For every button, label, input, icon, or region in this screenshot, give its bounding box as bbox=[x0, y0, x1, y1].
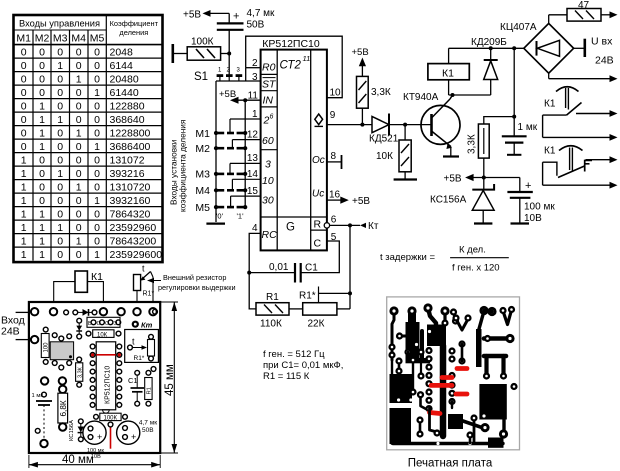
svg-text:0: 0 bbox=[94, 60, 100, 72]
svg-text:4,7 мк: 4,7 мк bbox=[247, 8, 276, 19]
PCB board outline (component side) bbox=[29, 302, 160, 453]
misc pads on board bbox=[35, 309, 157, 433]
node A junction dot bbox=[227, 52, 231, 56]
wire pin 5 to C1 bbox=[301, 241, 340, 273]
node M1 input with jumper switch bbox=[195, 128, 247, 140]
svg-text:1: 1 bbox=[21, 181, 27, 193]
svg-text:10: 10 bbox=[330, 88, 342, 99]
wire M4 to IC pin bbox=[232, 179, 260, 190]
svg-text:+5В: +5В bbox=[183, 10, 201, 21]
svg-text:М1: М1 bbox=[195, 128, 210, 140]
switch S1 bbox=[194, 68, 242, 84]
svg-text:1310720: 1310720 bbox=[110, 181, 151, 193]
svg-text:16: 16 bbox=[329, 190, 341, 201]
svg-text:'1': '1' bbox=[237, 212, 245, 221]
svg-text:122880: 122880 bbox=[110, 100, 145, 112]
svg-text:'0': '0' bbox=[216, 212, 224, 221]
svg-text:0: 0 bbox=[57, 235, 63, 247]
copper trace group 5 (center V) bbox=[452, 314, 471, 330]
svg-text:G: G bbox=[286, 222, 295, 234]
svg-text:М4: М4 bbox=[195, 185, 210, 197]
svg-text:+5В: +5В bbox=[444, 173, 462, 184]
svg-text:23592960: 23592960 bbox=[110, 222, 157, 234]
svg-text:10: 10 bbox=[262, 175, 274, 187]
relay coil K1 bbox=[428, 48, 469, 95]
svg-text:КР512ПС10: КР512ПС10 bbox=[262, 38, 320, 50]
svg-text:Коэффициент: Коэффициент bbox=[110, 19, 159, 28]
svg-text:КТ940А: КТ940А bbox=[403, 92, 439, 103]
svg-text:0: 0 bbox=[21, 141, 27, 153]
svg-text:0: 0 bbox=[57, 154, 63, 166]
svg-text:R: R bbox=[314, 219, 322, 231]
pin 8 Oc open terminal bbox=[327, 155, 342, 169]
svg-text:U вх: U вх bbox=[591, 36, 613, 48]
svg-text:1: 1 bbox=[39, 127, 45, 139]
svg-text:М4: М4 bbox=[71, 33, 86, 45]
svg-text:М1: М1 bbox=[16, 33, 31, 45]
svg-text:1: 1 bbox=[21, 195, 27, 207]
svg-text:24В: 24В bbox=[595, 55, 614, 67]
small diode on board (vertical) bbox=[76, 318, 82, 339]
svg-text:1: 1 bbox=[39, 249, 45, 261]
node M3 input with jumper switch bbox=[195, 169, 247, 181]
svg-text:8: 8 bbox=[331, 151, 337, 162]
svg-text:0: 0 bbox=[76, 195, 82, 207]
copper block left A bbox=[390, 374, 413, 403]
wire emitter to ground bbox=[450, 147, 452, 156]
copper trace group 3 (pad to black block) bbox=[423, 303, 446, 346]
svg-text:0: 0 bbox=[39, 168, 45, 180]
formula t_delay bbox=[380, 245, 509, 274]
svg-text:Кт: Кт bbox=[141, 321, 153, 330]
IC socket (gray) on board bbox=[50, 333, 73, 370]
svg-text:КС156А: КС156А bbox=[430, 195, 467, 206]
resistor R 3.3K (pull-up) bbox=[357, 76, 391, 126]
zener KS156A on board bbox=[69, 419, 84, 442]
op IC U1 KR512PS10 bbox=[261, 38, 327, 250]
svg-text:6: 6 bbox=[270, 114, 274, 121]
resistor R1 on board bbox=[145, 370, 153, 406]
copper trace group 12 (right bracket) bbox=[483, 356, 507, 380]
electrolytic cap 4.7uF on board bbox=[117, 420, 158, 445]
svg-text:24В: 24В bbox=[1, 326, 20, 338]
dimension 45 mm bbox=[160, 302, 178, 453]
svg-text:100: 100 bbox=[44, 342, 50, 353]
svg-text:R1: R1 bbox=[266, 292, 279, 303]
svg-text:30: 30 bbox=[262, 195, 274, 207]
svg-text:1: 1 bbox=[252, 109, 258, 120]
svg-text:1: 1 bbox=[21, 208, 27, 220]
svg-text:t задержки =: t задержки = bbox=[380, 252, 435, 263]
timer box with t / R1* on board bbox=[125, 330, 159, 363]
capacitor 1uF on board bbox=[32, 392, 53, 447]
copper trace group 2 (thick bar) bbox=[396, 306, 430, 363]
svg-text:М2: М2 bbox=[35, 33, 50, 45]
wire diode to base node bbox=[389, 123, 432, 127]
svg-text:4: 4 bbox=[252, 223, 258, 234]
svg-text:R1 = 115 К: R1 = 115 К bbox=[263, 371, 310, 382]
wire pin 9 to diode bbox=[327, 124, 372, 126]
node +5V top-left bbox=[183, 10, 229, 21]
zener diode KS156A bbox=[430, 178, 494, 223]
wire pin 6 to Kt node bbox=[330, 221, 379, 232]
svg-text:40 мм: 40 мм bbox=[62, 454, 94, 466]
svg-text:100К: 100К bbox=[104, 416, 118, 422]
svg-text:131072: 131072 bbox=[110, 154, 145, 166]
capacitor 4.7uF 50V bbox=[217, 8, 275, 31]
wire pin 2 R0 bbox=[246, 67, 261, 69]
svg-text:1: 1 bbox=[94, 249, 100, 261]
svg-text:9: 9 bbox=[330, 110, 336, 121]
svg-text:+5В: +5В bbox=[219, 89, 236, 100]
wire M2 to IC pin bbox=[232, 140, 260, 149]
svg-text:2: 2 bbox=[252, 58, 258, 69]
svg-text:7864320: 7864320 bbox=[110, 208, 151, 220]
svg-text:1: 1 bbox=[39, 141, 45, 153]
svg-text:Кт: Кт bbox=[368, 221, 379, 232]
svg-text:1: 1 bbox=[94, 195, 100, 207]
svg-text:0: 0 bbox=[94, 73, 100, 85]
resistor 6.8K on board bbox=[58, 386, 68, 431]
svg-text:13: 13 bbox=[247, 153, 259, 164]
coefficient table bbox=[14, 15, 163, 262]
svg-text:0: 0 bbox=[21, 100, 27, 112]
copper block right (big) bbox=[479, 383, 517, 439]
svg-text:0: 0 bbox=[57, 127, 63, 139]
svg-text:О: О bbox=[97, 321, 102, 327]
rail 1 (+5V rail) bbox=[244, 100, 246, 208]
ground bar at emitter bbox=[443, 155, 459, 157]
svg-text:45 мм: 45 мм bbox=[164, 364, 176, 396]
svg-text:при С1= 0,01 мкФ,: при С1= 0,01 мкФ, bbox=[263, 360, 343, 371]
pin 6 inverter circle bbox=[324, 223, 329, 228]
svg-text:0: 0 bbox=[21, 114, 27, 126]
svg-text:78643200: 78643200 bbox=[110, 235, 157, 247]
node +5V at pin 11 bbox=[219, 89, 261, 104]
svg-text:0: 0 bbox=[21, 87, 27, 99]
svg-text:60: 60 bbox=[262, 135, 274, 147]
svg-text:Uс: Uс bbox=[312, 189, 324, 200]
svg-text:0: 0 bbox=[21, 73, 27, 85]
svg-text:К1: К1 bbox=[544, 99, 556, 110]
resistor 10K bbox=[376, 125, 411, 179]
IC KR512PS10 on board bbox=[90, 342, 122, 413]
svg-text:1: 1 bbox=[57, 222, 63, 234]
svg-text:R0: R0 bbox=[262, 62, 276, 74]
svg-text:1228800: 1228800 bbox=[110, 127, 151, 139]
copper trace group 11 (DIP right pads) bbox=[448, 340, 465, 408]
svg-text:20480: 20480 bbox=[110, 73, 139, 85]
relay contact K1 (upper) bbox=[543, 87, 618, 141]
svg-text:1: 1 bbox=[39, 235, 45, 247]
wire collector node bbox=[449, 93, 491, 99]
pin 16 Uc to +5V bbox=[327, 196, 371, 207]
svg-text:S1: S1 bbox=[194, 71, 208, 83]
svg-text:Входы управления: Входы управления bbox=[19, 19, 100, 29]
svg-text:деления: деления bbox=[119, 28, 148, 37]
svg-text:0: 0 bbox=[57, 100, 63, 112]
note external resistor bbox=[147, 273, 236, 292]
svg-text:0: 0 bbox=[57, 73, 63, 85]
svg-text:14: 14 bbox=[247, 169, 259, 180]
svg-text:1 мк: 1 мк bbox=[518, 122, 538, 133]
svg-text:Oс: Oс bbox=[312, 155, 325, 166]
ground bar under rail 0 bbox=[206, 223, 225, 225]
svg-text:0: 0 bbox=[94, 46, 100, 58]
svg-text:КР512ПС10: КР512ПС10 bbox=[105, 366, 112, 404]
resistor 100 on board bbox=[41, 327, 49, 364]
svg-text:0: 0 bbox=[57, 195, 63, 207]
svg-text:10К: 10К bbox=[97, 332, 108, 338]
svg-text:0: 0 bbox=[76, 60, 82, 72]
ground bar under 10K bbox=[394, 178, 417, 180]
svg-text:6,8К: 6,8К bbox=[59, 400, 68, 416]
svg-text:+: + bbox=[233, 11, 239, 23]
svg-text:0: 0 bbox=[94, 208, 100, 220]
svg-text:СТ2: СТ2 bbox=[280, 60, 302, 72]
svg-text:0: 0 bbox=[39, 181, 45, 193]
svg-text:0: 0 bbox=[94, 181, 100, 193]
svg-text:коэффициента деления: коэффициента деления bbox=[177, 120, 187, 212]
svg-text:КЦ407А: КЦ407А bbox=[500, 22, 537, 33]
capacitor 100uF 10V bbox=[507, 178, 555, 225]
svg-text:393216: 393216 bbox=[110, 168, 145, 180]
node M2 input with jumper switch bbox=[195, 143, 247, 155]
svg-text:1: 1 bbox=[39, 222, 45, 234]
svg-text:0: 0 bbox=[21, 60, 27, 72]
dimension 40 mm bbox=[29, 454, 160, 468]
transistor Q1 KT940A bbox=[403, 92, 460, 149]
ground bar under 100uF bbox=[511, 222, 530, 224]
svg-text:М5: М5 bbox=[90, 33, 105, 45]
ground bar under zener bbox=[474, 222, 492, 224]
node U_in 24V terminal bbox=[574, 36, 614, 67]
diode KD521 bbox=[369, 114, 399, 145]
svg-text:0: 0 bbox=[57, 208, 63, 220]
resistor 100K bbox=[173, 37, 229, 61]
capacitor 1uF bbox=[502, 48, 538, 155]
svg-text:3932160: 3932160 bbox=[110, 195, 151, 207]
resistor R1 110K bbox=[256, 292, 303, 330]
svg-text:R1*: R1* bbox=[134, 355, 145, 362]
svg-text:0: 0 bbox=[57, 87, 63, 99]
wire +5V to C 4.7uF bbox=[228, 13, 230, 23]
svg-text:0: 0 bbox=[76, 168, 82, 180]
IC output diamond symbol (pin 9) bbox=[315, 114, 323, 125]
wire bridge bottom output bbox=[549, 73, 618, 82]
svg-text:2048: 2048 bbox=[110, 46, 134, 58]
svg-text:1: 1 bbox=[39, 208, 45, 220]
svg-text:1: 1 bbox=[76, 181, 82, 193]
copper block left B bbox=[390, 408, 412, 444]
svg-text:1: 1 bbox=[76, 127, 82, 139]
svg-text:0: 0 bbox=[94, 154, 100, 166]
resistor R 3.3K (series) bbox=[467, 115, 517, 178]
svg-text:0: 0 bbox=[21, 127, 27, 139]
node +5V (zener) bbox=[444, 173, 520, 184]
label inputs for division coefficient (vertical) bbox=[168, 120, 187, 212]
note f_gen values bbox=[263, 349, 343, 382]
copper trace group 9 (left column) bbox=[395, 348, 411, 374]
svg-text:0: 0 bbox=[94, 127, 100, 139]
svg-text:регулировки выдержки: регулировки выдержки bbox=[158, 283, 236, 292]
svg-text:R1*: R1* bbox=[299, 291, 316, 302]
svg-text:3686400: 3686400 bbox=[110, 141, 151, 153]
svg-text:0: 0 bbox=[57, 46, 63, 58]
copper trace group 13 (center bottom) bbox=[416, 408, 489, 438]
resistor 3.3K on board bbox=[76, 357, 84, 387]
svg-text:КД521: КД521 bbox=[369, 134, 399, 145]
svg-text:50В: 50В bbox=[247, 20, 265, 31]
svg-text:235929600: 235929600 bbox=[110, 249, 163, 261]
svg-text:0: 0 bbox=[76, 100, 82, 112]
node M5 input with jumper switch bbox=[195, 202, 247, 214]
wire +24V rail bbox=[449, 46, 524, 50]
svg-text:R1: R1 bbox=[147, 387, 153, 394]
red jumper wires bbox=[430, 369, 468, 414]
svg-text:RC: RC bbox=[262, 229, 278, 241]
svg-text:О: О bbox=[105, 321, 110, 327]
svg-text:10В: 10В bbox=[524, 213, 542, 224]
svg-text:110К: 110К bbox=[260, 319, 282, 330]
svg-text:3,3К: 3,3К bbox=[77, 366, 83, 378]
svg-text:0: 0 bbox=[39, 46, 45, 58]
resistor R1* 22K (external) bbox=[299, 287, 352, 330]
svg-text:3,3К: 3,3К bbox=[467, 134, 478, 154]
svg-text:М3: М3 bbox=[195, 169, 210, 181]
capacitor C1 on board bbox=[128, 370, 144, 406]
svg-text:1: 1 bbox=[57, 60, 63, 72]
svg-text:C: C bbox=[314, 238, 322, 250]
svg-text:6144: 6144 bbox=[110, 60, 134, 72]
svg-text:1: 1 bbox=[21, 222, 27, 234]
diode KD209B (flyback) bbox=[471, 37, 507, 95]
transistor footprint B O O E bbox=[87, 317, 121, 327]
svg-text:0: 0 bbox=[39, 154, 45, 166]
svg-text:3,3К: 3,3К bbox=[371, 87, 391, 98]
svg-text:IN: IN bbox=[263, 95, 274, 107]
copper trace group 1 (top-left pad with long trace) bbox=[388, 306, 398, 374]
svg-text:3: 3 bbox=[265, 159, 271, 171]
svg-text:0: 0 bbox=[76, 249, 82, 261]
svg-text:0: 0 bbox=[94, 222, 100, 234]
relay contact K1 (lower, time delay) bbox=[543, 146, 618, 189]
svg-text:Печатная плата: Печатная плата bbox=[408, 458, 493, 470]
node M4 input with jumper switch bbox=[195, 185, 247, 197]
svg-text:0: 0 bbox=[39, 87, 45, 99]
svg-text:0: 0 bbox=[76, 208, 82, 220]
resistor 100K on board bbox=[94, 413, 128, 421]
svg-text:1: 1 bbox=[21, 168, 27, 180]
svg-text:4,7 мк: 4,7 мк bbox=[139, 420, 157, 427]
svg-text:6: 6 bbox=[331, 215, 337, 226]
svg-text:1: 1 bbox=[94, 141, 100, 153]
pads top row bbox=[31, 308, 157, 343]
svg-text:0: 0 bbox=[76, 141, 82, 153]
red wire on board bbox=[110, 427, 112, 448]
electrolytic cap 100uF on board bbox=[83, 421, 106, 460]
svg-text:3: 3 bbox=[252, 72, 258, 83]
svg-text:0: 0 bbox=[21, 46, 27, 58]
svg-text:0: 0 bbox=[76, 114, 82, 126]
copper trace group 10 (DIP left pads) bbox=[409, 346, 443, 436]
capacitor C1 0.01 bbox=[269, 262, 318, 283]
svg-text:0: 0 bbox=[57, 181, 63, 193]
svg-text:Внешний резистор: Внешний резистор bbox=[163, 273, 226, 282]
wire C4.7 to node A bbox=[228, 30, 230, 54]
svg-text:1: 1 bbox=[21, 154, 27, 166]
svg-text:1: 1 bbox=[21, 235, 27, 247]
wire M3 to IC pin bbox=[230, 163, 261, 174]
svg-text:+5В: +5В bbox=[352, 196, 370, 207]
svg-text:Э: Э bbox=[113, 321, 117, 327]
svg-text:100К: 100К bbox=[191, 37, 214, 48]
test point Kt pad bbox=[132, 321, 153, 330]
svg-text:11: 11 bbox=[303, 54, 311, 63]
svg-text:С1: С1 bbox=[128, 376, 138, 385]
svg-text:ST: ST bbox=[262, 79, 277, 91]
svg-text:0: 0 bbox=[76, 222, 82, 234]
bridge rectifier KC407A bbox=[500, 22, 574, 73]
svg-text:0: 0 bbox=[76, 87, 82, 99]
svg-text:М3: М3 bbox=[53, 33, 68, 45]
svg-text:М2: М2 bbox=[195, 143, 210, 155]
svg-text:1: 1 bbox=[94, 87, 100, 99]
svg-text:С1: С1 bbox=[305, 263, 318, 274]
svg-text:0: 0 bbox=[76, 46, 82, 58]
rail 0 (ground rail) bbox=[215, 81, 217, 222]
svg-text:М5: М5 bbox=[195, 202, 210, 214]
svg-text:1: 1 bbox=[21, 249, 27, 261]
svg-text:0: 0 bbox=[94, 168, 100, 180]
wire node A to S1 contact 2 bbox=[228, 54, 230, 77]
copper trace group 8 (right horizontal) bbox=[476, 329, 515, 367]
diode on board (top row) bbox=[73, 309, 97, 316]
printed circuit board (copper side) bbox=[387, 297, 520, 450]
svg-text:+: + bbox=[131, 432, 136, 442]
wire M1 to IC pin bbox=[230, 119, 261, 133]
svg-text:1: 1 bbox=[76, 73, 82, 85]
resistor 47 bbox=[549, 0, 618, 23]
terminal bar left of R 100K bbox=[172, 44, 175, 63]
svg-text:0: 0 bbox=[76, 154, 82, 166]
svg-text:10К: 10К bbox=[376, 151, 393, 162]
node +5V above R 3.3K bbox=[352, 47, 369, 76]
wire M5 to IC pin bbox=[231, 196, 261, 207]
svg-text:0: 0 bbox=[57, 141, 63, 153]
IC pin numbers bbox=[247, 58, 341, 243]
svg-text:368640: 368640 bbox=[110, 114, 145, 126]
svg-text:61440: 61440 bbox=[110, 87, 139, 99]
svg-text:0: 0 bbox=[57, 249, 63, 261]
svg-text:1: 1 bbox=[39, 100, 45, 112]
svg-text:12: 12 bbox=[247, 129, 259, 140]
copper trace group 7 (top right V) bbox=[499, 306, 515, 325]
svg-text:+: + bbox=[525, 180, 531, 192]
svg-text:100 мк: 100 мк bbox=[524, 202, 555, 213]
svg-text:0: 0 bbox=[94, 100, 100, 112]
svg-text:К1: К1 bbox=[544, 146, 556, 157]
pads mid-left bbox=[41, 377, 66, 384]
copper trace bottom rail bbox=[392, 410, 504, 448]
copper trace group 4 bbox=[440, 306, 459, 326]
svg-text:0: 0 bbox=[39, 60, 45, 72]
wire pin 4 RC bbox=[247, 233, 295, 309]
svg-text:0: 0 bbox=[39, 195, 45, 207]
svg-text:+5В: +5В bbox=[352, 47, 369, 58]
svg-text:22К: 22К bbox=[308, 319, 325, 330]
svg-text:50В: 50В bbox=[142, 427, 154, 434]
